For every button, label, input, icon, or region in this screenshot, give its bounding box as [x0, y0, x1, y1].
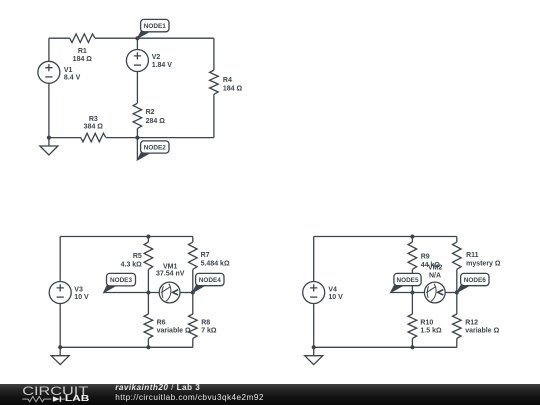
node NODE4 flag — [193, 273, 224, 292]
wire c3 mid horizontal left — [391, 292, 425, 294]
resistor R10 — [408, 314, 417, 338]
wire c2 bottom — [60, 346, 193, 348]
svg-text:NODE4: NODE4 — [199, 277, 221, 284]
svg-text:variable Ω: variable Ω — [465, 328, 499, 335]
svg-text:R11: R11 — [466, 252, 479, 259]
wire c3 mid lower branch — [411, 293, 413, 315]
resistor R12 — [453, 314, 462, 338]
ground — [40, 138, 58, 155]
svg-text:184 Ω: 184 Ω — [223, 85, 243, 92]
svg-text:10 V: 10 V — [328, 294, 343, 301]
wire V2 to R2 — [136, 72, 138, 104]
wire R2 to bottom — [136, 129, 138, 138]
voltage source V4 — [303, 282, 325, 304]
svg-text:NODE3: NODE3 — [110, 277, 132, 284]
svg-text:NODE5: NODE5 — [396, 277, 418, 284]
resistor R2 — [133, 103, 142, 128]
wire right branch lower — [213, 94, 215, 137]
wire c3 bottom — [314, 346, 457, 348]
svg-text:1.84 V: 1.84 V — [152, 62, 173, 69]
svg-text:8.4 V: 8.4 V — [64, 74, 81, 81]
svg-text:V3: V3 — [74, 286, 83, 293]
wire c2 mid to midwire — [147, 269, 149, 292]
svg-text:N/A: N/A — [429, 273, 441, 280]
wire c3 top — [314, 236, 457, 238]
label V2 — [152, 54, 173, 69]
svg-text:R5: R5 — [133, 253, 142, 260]
wire c3 right lower branch — [456, 293, 458, 315]
junction c2 midwire right — [191, 291, 195, 295]
node NODE6 flag — [457, 273, 489, 292]
label R5 — [121, 253, 143, 269]
label R9 — [421, 253, 441, 269]
svg-text:37.54 nV: 37.54 nV — [156, 271, 185, 278]
svg-text:NODE6: NODE6 — [464, 277, 486, 284]
wire top-left segment — [49, 37, 70, 39]
wire c2 right to midwire — [192, 269, 194, 292]
wire c2 left lower — [59, 304, 61, 348]
label R2 — [146, 109, 166, 125]
wire top-right segment — [95, 37, 214, 39]
label R10 — [420, 319, 442, 334]
resistor R7 — [189, 242, 198, 269]
wire c3 mid upper lead — [411, 237, 413, 243]
label R11 — [466, 252, 501, 267]
wire c2 mid upper lead — [147, 237, 149, 243]
resistor R8 — [189, 314, 198, 338]
junction node2 — [135, 136, 139, 140]
svg-text:10 V: 10 V — [74, 294, 89, 301]
junction c3 top mid — [410, 235, 414, 239]
wire node2 stub — [136, 138, 138, 160]
footer bar — [0, 384, 540, 405]
voltage source V2 — [126, 50, 148, 72]
junction c2 bottom mid — [146, 345, 150, 349]
wire c2 top — [60, 236, 193, 238]
wire c2 mid horizontal left — [104, 292, 160, 294]
footer attribution text — [115, 383, 264, 402]
junction c3 midwire mid — [410, 291, 414, 295]
svg-text:mystery Ω: mystery Ω — [466, 260, 501, 267]
node NODE5 flag — [391, 273, 422, 292]
resistor R9 — [408, 242, 417, 269]
svg-text:VM2: VM2 — [428, 265, 443, 272]
ground c2 — [51, 347, 69, 364]
svg-text:variable Ω: variable Ω — [157, 328, 191, 335]
label V4 — [328, 286, 343, 301]
label R6 — [157, 319, 191, 334]
voltmeter VM2 — [424, 282, 445, 303]
resistor R6 — [144, 314, 153, 338]
svg-text:VM1: VM1 — [163, 263, 178, 270]
wire c3 mid to midwire — [411, 269, 413, 292]
wire c2 mid horizontal right — [180, 292, 193, 294]
svg-text:184 Ω: 184 Ω — [73, 56, 93, 63]
voltmeter VM1 — [159, 282, 180, 303]
wire c3 mid branch to bottom — [411, 338, 413, 347]
circuitlab logo — [0, 384, 110, 405]
resistor R4 — [210, 70, 219, 94]
label V3 — [74, 286, 89, 301]
resistor R5 — [144, 242, 153, 269]
wire c3 mid horizontal right — [445, 292, 457, 294]
wire c3 left upper — [313, 237, 315, 282]
label R3 — [84, 116, 104, 131]
wire bottom-right segment — [106, 137, 214, 139]
svg-text:4.3 kΩ: 4.3 kΩ — [121, 262, 143, 269]
label R1 value — [73, 48, 93, 63]
voltage source V3 — [49, 282, 71, 304]
junction c2 top mid — [146, 235, 150, 239]
junction c2 midwire mid — [146, 291, 150, 295]
label VM1 — [156, 263, 185, 277]
svg-text:V4: V4 — [328, 286, 337, 293]
svg-text:V1: V1 — [64, 67, 73, 74]
ground c3 — [305, 347, 323, 364]
label R4 — [223, 77, 243, 92]
junction c3 midwire right — [455, 291, 459, 295]
voltage source V1 — [38, 61, 60, 83]
junction c2 bottom left — [58, 345, 62, 349]
wire c2 mid lower branch — [147, 293, 149, 315]
svg-text:R12: R12 — [465, 319, 478, 326]
svg-text:NODE1: NODE1 — [144, 23, 166, 30]
label R7 — [201, 252, 230, 267]
wire c3 left lower — [313, 304, 315, 348]
resistor R11 — [453, 242, 462, 269]
label R8 — [201, 319, 217, 334]
wire c3 right branch to bottom — [456, 338, 458, 347]
svg-text:284 Ω: 284 Ω — [146, 118, 166, 125]
svg-text:R4: R4 — [223, 77, 232, 84]
wire left branch upper — [48, 38, 50, 61]
junction node1 — [135, 36, 139, 40]
svg-text:LAB: LAB — [65, 395, 90, 404]
svg-text:R1: R1 — [78, 48, 87, 55]
svg-text:1.5 kΩ: 1.5 kΩ — [420, 328, 442, 335]
label R12 — [465, 319, 499, 334]
wire c2 right upper lead — [192, 237, 194, 243]
node NODE1 flag — [137, 19, 169, 38]
junction c3 bottom mid — [410, 345, 414, 349]
wire left branch lower — [48, 83, 50, 137]
svg-text:7 kΩ: 7 kΩ — [201, 328, 217, 335]
node NODE2 flag — [137, 141, 169, 160]
wire c3 right upper lead — [456, 237, 458, 243]
wire c2 left upper — [59, 237, 61, 282]
svg-text:NODE2: NODE2 — [144, 144, 166, 151]
label VM2 — [428, 265, 443, 280]
label V1 — [64, 67, 81, 81]
svg-text:R6: R6 — [157, 319, 166, 326]
node NODE3 flag — [104, 273, 136, 292]
resistor R1 — [70, 34, 95, 43]
wire c2 right branch to bottom — [192, 338, 194, 347]
svg-text:R9: R9 — [421, 253, 430, 260]
junction c3 bottom left — [312, 345, 316, 349]
svg-text:R7: R7 — [201, 252, 210, 259]
svg-text:R10: R10 — [420, 319, 433, 326]
svg-text:384 Ω: 384 Ω — [84, 124, 104, 131]
wire bottom-left segment — [49, 137, 81, 139]
svg-text:R8: R8 — [201, 319, 210, 326]
resistor R3 — [81, 133, 106, 142]
wire mid branch upper — [136, 38, 138, 49]
wire c2 right lower branch — [192, 293, 194, 315]
svg-text:R2: R2 — [146, 109, 155, 116]
wire right branch upper — [213, 38, 215, 70]
wire c3 right to midwire — [456, 269, 458, 292]
svg-text:V2: V2 — [152, 54, 161, 61]
svg-text:5.484 kΩ: 5.484 kΩ — [201, 260, 230, 267]
junction ground left — [47, 136, 51, 140]
wire c2 mid branch to bottom — [147, 338, 149, 347]
svg-text:R3: R3 — [89, 116, 98, 123]
